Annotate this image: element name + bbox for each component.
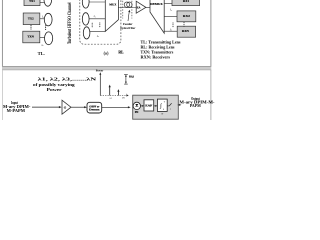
svg-text:RXN: Receivers: RXN: Receivers xyxy=(141,54,171,59)
svg-text:EAF: EAF xyxy=(145,104,152,108)
svg-text:RL: RL xyxy=(118,51,124,55)
svg-text:TX1: TX1 xyxy=(29,0,35,3)
svg-text:TL.: TL. xyxy=(38,51,45,56)
svg-text:λ₂: λ₂ xyxy=(41,15,44,18)
svg-text:MUX: MUX xyxy=(109,3,117,7)
svg-text:∫: ∫ xyxy=(159,103,162,110)
svg-text:PD: PD xyxy=(135,111,139,114)
svg-text:DEMUX: DEMUX xyxy=(150,2,163,6)
svg-text:λ1: λ1 xyxy=(108,97,111,100)
svg-text:Power: Power xyxy=(96,69,104,73)
svg-text:EA: EA xyxy=(137,6,141,9)
svg-text:TX2: TX2 xyxy=(28,16,34,20)
svg-text:Demux: Demux xyxy=(89,108,101,111)
svg-text:(a): (a) xyxy=(104,51,109,56)
svg-text:R0,i: R0,i xyxy=(129,75,134,78)
svg-text:λ1, λ2, λ3,.......λN: λ1, λ2, λ3,.......λN xyxy=(38,76,97,81)
svg-text:Power: Power xyxy=(47,87,62,92)
svg-text:λ: λ xyxy=(125,94,127,96)
svg-text:PAPM: PAPM xyxy=(190,104,202,108)
svg-text:λ₂: λ₂ xyxy=(93,15,96,18)
svg-text:RX2: RX2 xyxy=(183,14,190,18)
svg-text:Optical Fiber: Optical Fiber xyxy=(120,26,136,30)
svg-text:RXN: RXN xyxy=(182,29,190,33)
svg-text:z: z xyxy=(169,108,171,111)
svg-text:TXN: TXN xyxy=(27,35,34,39)
svg-text:M-PAPM: M-PAPM xyxy=(7,109,26,113)
svg-text:Turbulent HFFSO Channel: Turbulent HFFSO Channel xyxy=(67,2,73,44)
svg-text:λN: λN xyxy=(121,97,125,100)
svg-text:RX1: RX1 xyxy=(183,0,190,3)
svg-text:λ₂: λ₂ xyxy=(169,8,172,11)
